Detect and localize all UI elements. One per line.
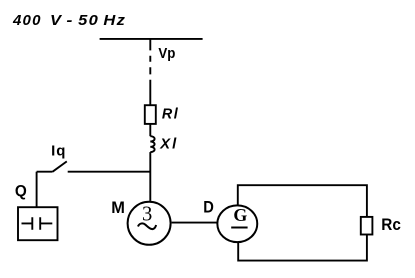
svg-text:Xl: Xl [159,136,178,152]
svg-text:400: 400 [12,12,42,29]
svg-text:G: G [233,205,247,225]
svg-text:Iq: Iq [51,143,66,160]
svg-text:Rl: Rl [162,107,179,123]
svg-text:Vp: Vp [158,45,175,62]
svg-text:-: - [66,12,72,29]
svg-text:D: D [203,199,214,217]
svg-text:M: M [111,199,125,217]
svg-text:50: 50 [78,12,99,29]
svg-text:Q: Q [15,183,27,200]
svg-text:Hz: Hz [103,12,126,29]
svg-text:Rc: Rc [381,216,401,234]
svg-text:3: 3 [142,204,152,226]
